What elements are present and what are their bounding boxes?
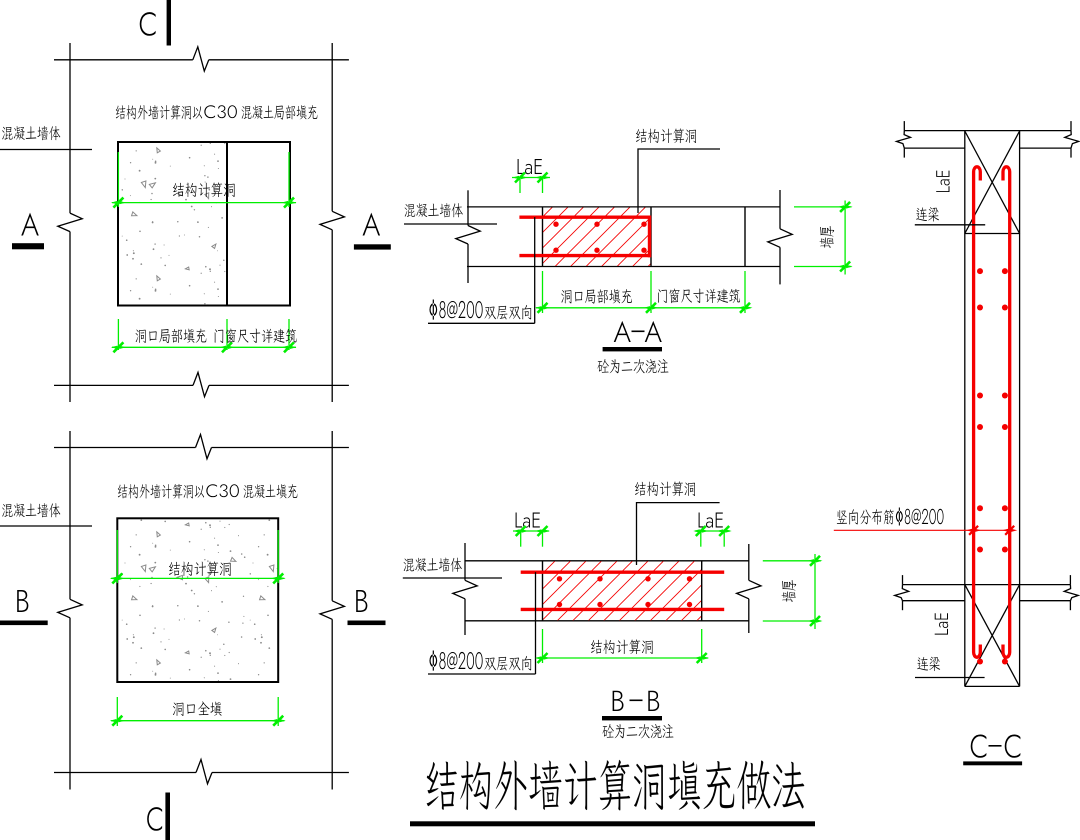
B-B wallthick text xyxy=(782,580,797,602)
plan A mid dim arrow left xyxy=(113,198,123,208)
B-B LaE right ext2 xyxy=(723,531,725,547)
C-C bottom beam lower line left xyxy=(903,600,965,602)
drawing title xyxy=(427,760,805,811)
section mark A right letter xyxy=(363,213,381,236)
C-C top beam lower line right xyxy=(1020,147,1071,149)
B-B LaE left ext2 xyxy=(542,531,544,547)
C-C coupling beam top leader xyxy=(915,224,985,226)
section mark A right underline xyxy=(354,244,391,249)
plan B top wall line with break xyxy=(54,447,196,449)
plan A bottom dim ext mid xyxy=(226,319,228,350)
A-A wall top line xyxy=(467,206,780,208)
A-A bottom dim text right xyxy=(658,289,740,304)
plan A mid dim text xyxy=(173,182,235,197)
A-A wallthick text xyxy=(820,226,835,248)
vertical bar leader tick2 xyxy=(1005,526,1014,535)
B-B hatch fill xyxy=(543,561,702,620)
plan A left wall line with break xyxy=(69,43,71,213)
A-A bottom dim ext left xyxy=(542,271,544,313)
A-A bottom dim arrow right xyxy=(740,303,750,313)
A-A rebar label phi xyxy=(429,300,482,320)
B-B hole left edge xyxy=(542,561,544,621)
B-B title underline xyxy=(602,716,662,720)
B-B LaE left text xyxy=(516,512,540,527)
drawing title underline xyxy=(410,821,815,826)
C-C column left edge xyxy=(964,131,966,687)
C-C bottom beam right break xyxy=(1069,575,1071,585)
C-C column bottom line xyxy=(965,685,1020,687)
plan B hole rect xyxy=(117,518,278,682)
A-A rebar label cjk xyxy=(484,305,531,320)
C-C bottom beam X brace xyxy=(965,585,1020,687)
C-C left rebar with hooks xyxy=(974,167,981,658)
plan B note text cjk2 xyxy=(244,484,298,498)
B-B wall right edge with break xyxy=(748,544,750,580)
B-B bottom dim arrow left xyxy=(538,653,548,663)
C-C right rebar with hooks xyxy=(1003,167,1010,658)
A-A hole left edge xyxy=(542,207,544,267)
plan A mid dim ext right xyxy=(288,152,290,207)
plan B bottom dim ext left xyxy=(116,697,118,726)
section mark B right underline xyxy=(348,621,386,626)
section mark B right letter xyxy=(356,590,367,612)
B-B hole right edge xyxy=(701,561,703,621)
B-B LaE left arrow1 xyxy=(516,526,526,536)
plan A wall label leader xyxy=(0,149,92,151)
C-C distribution bar dots xyxy=(977,268,983,274)
section mark C bottom bar xyxy=(165,793,170,840)
B-B rebar top xyxy=(521,571,725,574)
plan A hole rect xyxy=(118,142,290,306)
A-A LaE ext right xyxy=(542,178,544,194)
section mark C bottom letter xyxy=(147,807,162,831)
section mark A left underline xyxy=(12,243,44,249)
C-C coupling beam bottom leader xyxy=(915,677,985,679)
A-A bottom dim ext right xyxy=(744,271,746,313)
B-B LaE left arrow2 xyxy=(538,526,548,536)
B-B bottom dim ext right xyxy=(701,629,703,663)
C-C LaE bottom text xyxy=(935,613,948,634)
plan A bottom dim arrow left xyxy=(113,342,123,352)
A-A bottom dim arrow mid xyxy=(646,303,656,313)
B-B wallthick arrow top xyxy=(810,556,820,566)
plan A note text cjk2 xyxy=(242,105,318,120)
C-C bottom beam lower line right xyxy=(1020,600,1071,602)
A-A wall label leader xyxy=(404,223,497,225)
C-C coupling beam bottom label xyxy=(917,657,940,671)
plan B mid dim line xyxy=(111,577,285,579)
A-A LaE text xyxy=(518,159,542,174)
A-A rebar leader xyxy=(534,217,536,323)
B-B LaE right arrow1 xyxy=(696,526,706,536)
B-B LaE right dim line xyxy=(695,530,730,532)
plan B bottom dim text xyxy=(173,702,222,716)
A-A bottom dim ext mid xyxy=(650,271,652,313)
plan A hole stipple fill xyxy=(119,143,226,305)
plan B bottom dim ext right xyxy=(277,697,279,726)
A-A rebar bottom xyxy=(519,254,651,257)
B-B wallthick dim vline xyxy=(814,554,816,629)
A-A title dash xyxy=(632,331,645,333)
plan A bottom dim ext right xyxy=(288,319,290,350)
B-B wall label leader xyxy=(403,577,502,579)
A-A title underline xyxy=(603,347,662,351)
B-B rebar section dots xyxy=(557,576,562,581)
B-B wall left edge with break xyxy=(464,543,466,580)
vertical bar label phi xyxy=(896,507,944,525)
A-A bottom dim line xyxy=(536,307,751,309)
A-A window partition xyxy=(744,207,746,267)
plan A right wall line with break xyxy=(331,43,333,211)
plan B left wall line with break xyxy=(69,431,71,599)
A-A bottom dim arrow left xyxy=(538,303,548,313)
A-A wallthick arrow bottom xyxy=(840,262,850,272)
B-B hole label text xyxy=(635,481,695,496)
section mark C top bar xyxy=(167,0,171,46)
section mark C top letter xyxy=(140,12,156,36)
C-C top beam lower line left xyxy=(904,147,965,149)
B-B wallthick arrow bottom xyxy=(810,616,820,626)
plan A note text C30 xyxy=(204,105,237,118)
A-A rebar section dots xyxy=(553,222,558,227)
A-A LaE arrow right xyxy=(538,173,548,183)
C-C top beam right break xyxy=(1070,121,1072,131)
plan B hole stipple fill xyxy=(118,519,277,681)
plan A bottom dim ext left xyxy=(117,319,119,350)
plan B bottom dim line xyxy=(111,720,284,722)
A-A LaE arrow left xyxy=(515,173,525,183)
B-B LaE right ext1 xyxy=(700,531,702,547)
A-A rebar end vertical xyxy=(648,216,651,258)
C-C top beam X brace xyxy=(965,131,1020,234)
C-C title letter2 xyxy=(1005,734,1021,757)
B-B rebar label phi xyxy=(429,651,482,671)
A-A hole label text xyxy=(636,128,696,143)
B-B wallthick dim top line xyxy=(763,560,821,562)
C-C top beam left break xyxy=(903,121,905,131)
A-A bottom dim text left xyxy=(561,289,632,304)
B-B bottom dim line xyxy=(537,657,709,659)
plan A bottom wall line with break xyxy=(54,384,193,386)
A-A hole label leader xyxy=(638,149,720,213)
C-C bottom beam left break xyxy=(902,575,904,585)
vertical bar label leader xyxy=(834,529,1014,531)
B-B LaE right arrow2 xyxy=(719,526,729,536)
plan B right wall line with break xyxy=(331,431,333,601)
A-A wallthick arrow top xyxy=(840,202,850,212)
plan A mid dim line xyxy=(112,202,296,204)
B-B LaE left ext1 xyxy=(520,531,522,547)
section mark A left letter xyxy=(21,213,39,236)
plan A wall label xyxy=(2,126,60,140)
C-C title underline xyxy=(963,761,1022,765)
B-B wall label xyxy=(404,558,462,572)
A-A LaE ext left xyxy=(519,178,521,194)
A-A wallthick dim bottom line xyxy=(794,266,851,268)
B-B rebar bottom xyxy=(521,608,725,611)
C-C LaE top text xyxy=(936,171,949,192)
plan A bottom dim line xyxy=(112,346,296,348)
C-C top beam upper line xyxy=(904,130,1071,132)
plan B mid dim ext left xyxy=(116,530,118,583)
B-B bottom dim text xyxy=(591,639,653,654)
A-A subtitle xyxy=(597,359,668,373)
C-C coupling beam top label xyxy=(916,207,939,221)
B-B hole label leader xyxy=(637,503,720,565)
plan B bottom dim arrow left xyxy=(112,716,122,726)
vertical bar label cjk xyxy=(837,509,894,525)
section mark B left letter xyxy=(17,590,28,612)
C-C title dash xyxy=(989,745,1002,747)
A-A title letter1 xyxy=(614,321,631,342)
plan B note text cjk1 xyxy=(118,484,204,499)
plan B bottom wall line with break xyxy=(54,772,196,774)
B-B rebar label cjk xyxy=(484,656,531,671)
section mark B left underline xyxy=(0,621,48,626)
B-B rebar leader xyxy=(535,572,537,674)
A-A title letter2 xyxy=(645,321,662,342)
A-A hole right edge xyxy=(650,207,652,267)
B-B subtitle xyxy=(602,724,673,738)
A-A wall bottom line xyxy=(467,266,780,268)
plan B bottom dim arrow right xyxy=(273,716,283,726)
B-B title letter1 xyxy=(613,691,624,711)
plan A bottom dim arrow right xyxy=(284,342,294,352)
B-B wall bottom line xyxy=(465,620,749,622)
B-B rebar label underline xyxy=(428,673,536,675)
B-B wall top line xyxy=(465,560,749,562)
A-A hatch fill xyxy=(543,208,652,267)
vertical bar leader tick1 xyxy=(969,526,978,535)
A-A rebar label underline xyxy=(428,322,535,324)
C-C column right edge xyxy=(1019,131,1021,687)
C-C bottom beam upper line xyxy=(903,584,1071,586)
plan A bottom dim arrow mid xyxy=(222,342,232,352)
C-C top beam soffit in column xyxy=(965,233,1020,235)
plan A hole divider xyxy=(226,142,228,306)
plan A mid dim ext left xyxy=(117,152,119,207)
B-B bottom dim arrow right xyxy=(697,653,707,663)
A-A wallthick dim vline xyxy=(844,201,846,275)
B-B title letter2 xyxy=(648,691,659,711)
plan B wall label xyxy=(2,503,60,517)
B-B LaE right text xyxy=(699,512,723,527)
A-A wall left edge with break xyxy=(467,190,469,225)
B-B wallthick dim bottom line xyxy=(763,620,821,622)
plan A top wall line with break xyxy=(54,59,193,61)
plan B mid dim arrow right xyxy=(273,573,283,583)
plan A mid dim arrow right xyxy=(284,198,294,208)
B-B LaE left dim line xyxy=(513,530,549,532)
B-B title dash xyxy=(630,700,643,702)
A-A wallthick dim top line xyxy=(794,206,851,208)
A-A wall label xyxy=(405,203,463,217)
plan B wall label leader xyxy=(0,525,92,527)
A-A LaE dim line xyxy=(512,177,550,179)
plan B mid dim ext right xyxy=(277,530,279,583)
plan B mid dim arrow left xyxy=(112,573,122,583)
A-A wall right edge with break xyxy=(779,190,781,229)
plan A note text cjk1 xyxy=(116,105,202,120)
B-B bottom dim ext left xyxy=(542,629,544,663)
plan B mid dim text xyxy=(169,561,231,576)
plan A bottom dim text xyxy=(136,329,297,344)
C-C title letter1 xyxy=(971,734,987,757)
A-A rebar top xyxy=(519,215,651,218)
plan B note text C30 xyxy=(206,484,239,497)
